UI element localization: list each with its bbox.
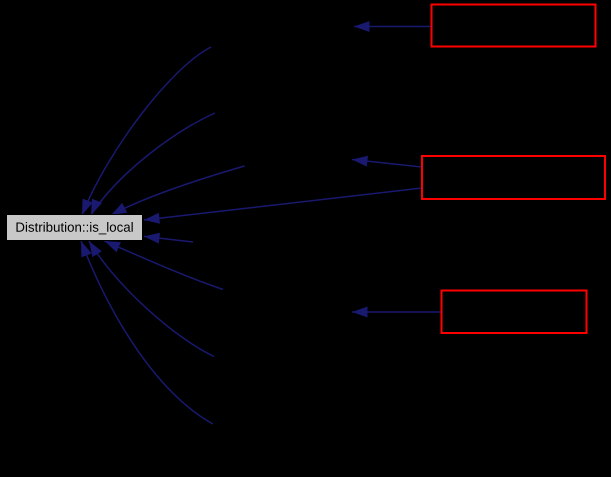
red node box3 [442,291,587,334]
edge Eg from hidden node D [144,236,193,242]
edge E3 from hidden node C [111,166,245,215]
edge Ef from hidden node G [81,241,213,424]
edge Ec from red node box3 [352,311,441,313]
grey node Distribution::is_local [7,215,143,241]
edge Ebox1 from red node box1 [354,26,431,28]
edge Ee from hidden node F [89,241,214,357]
edge Ed from hidden node E [105,241,224,290]
red node box1 [432,5,596,47]
red node box2 [422,156,605,199]
edge E2 from hidden node B [91,113,215,215]
edge Eb from red node box2 [144,188,422,220]
edge Ea from red node box2 [352,160,422,168]
edge E1 from hidden node A [82,47,211,215]
